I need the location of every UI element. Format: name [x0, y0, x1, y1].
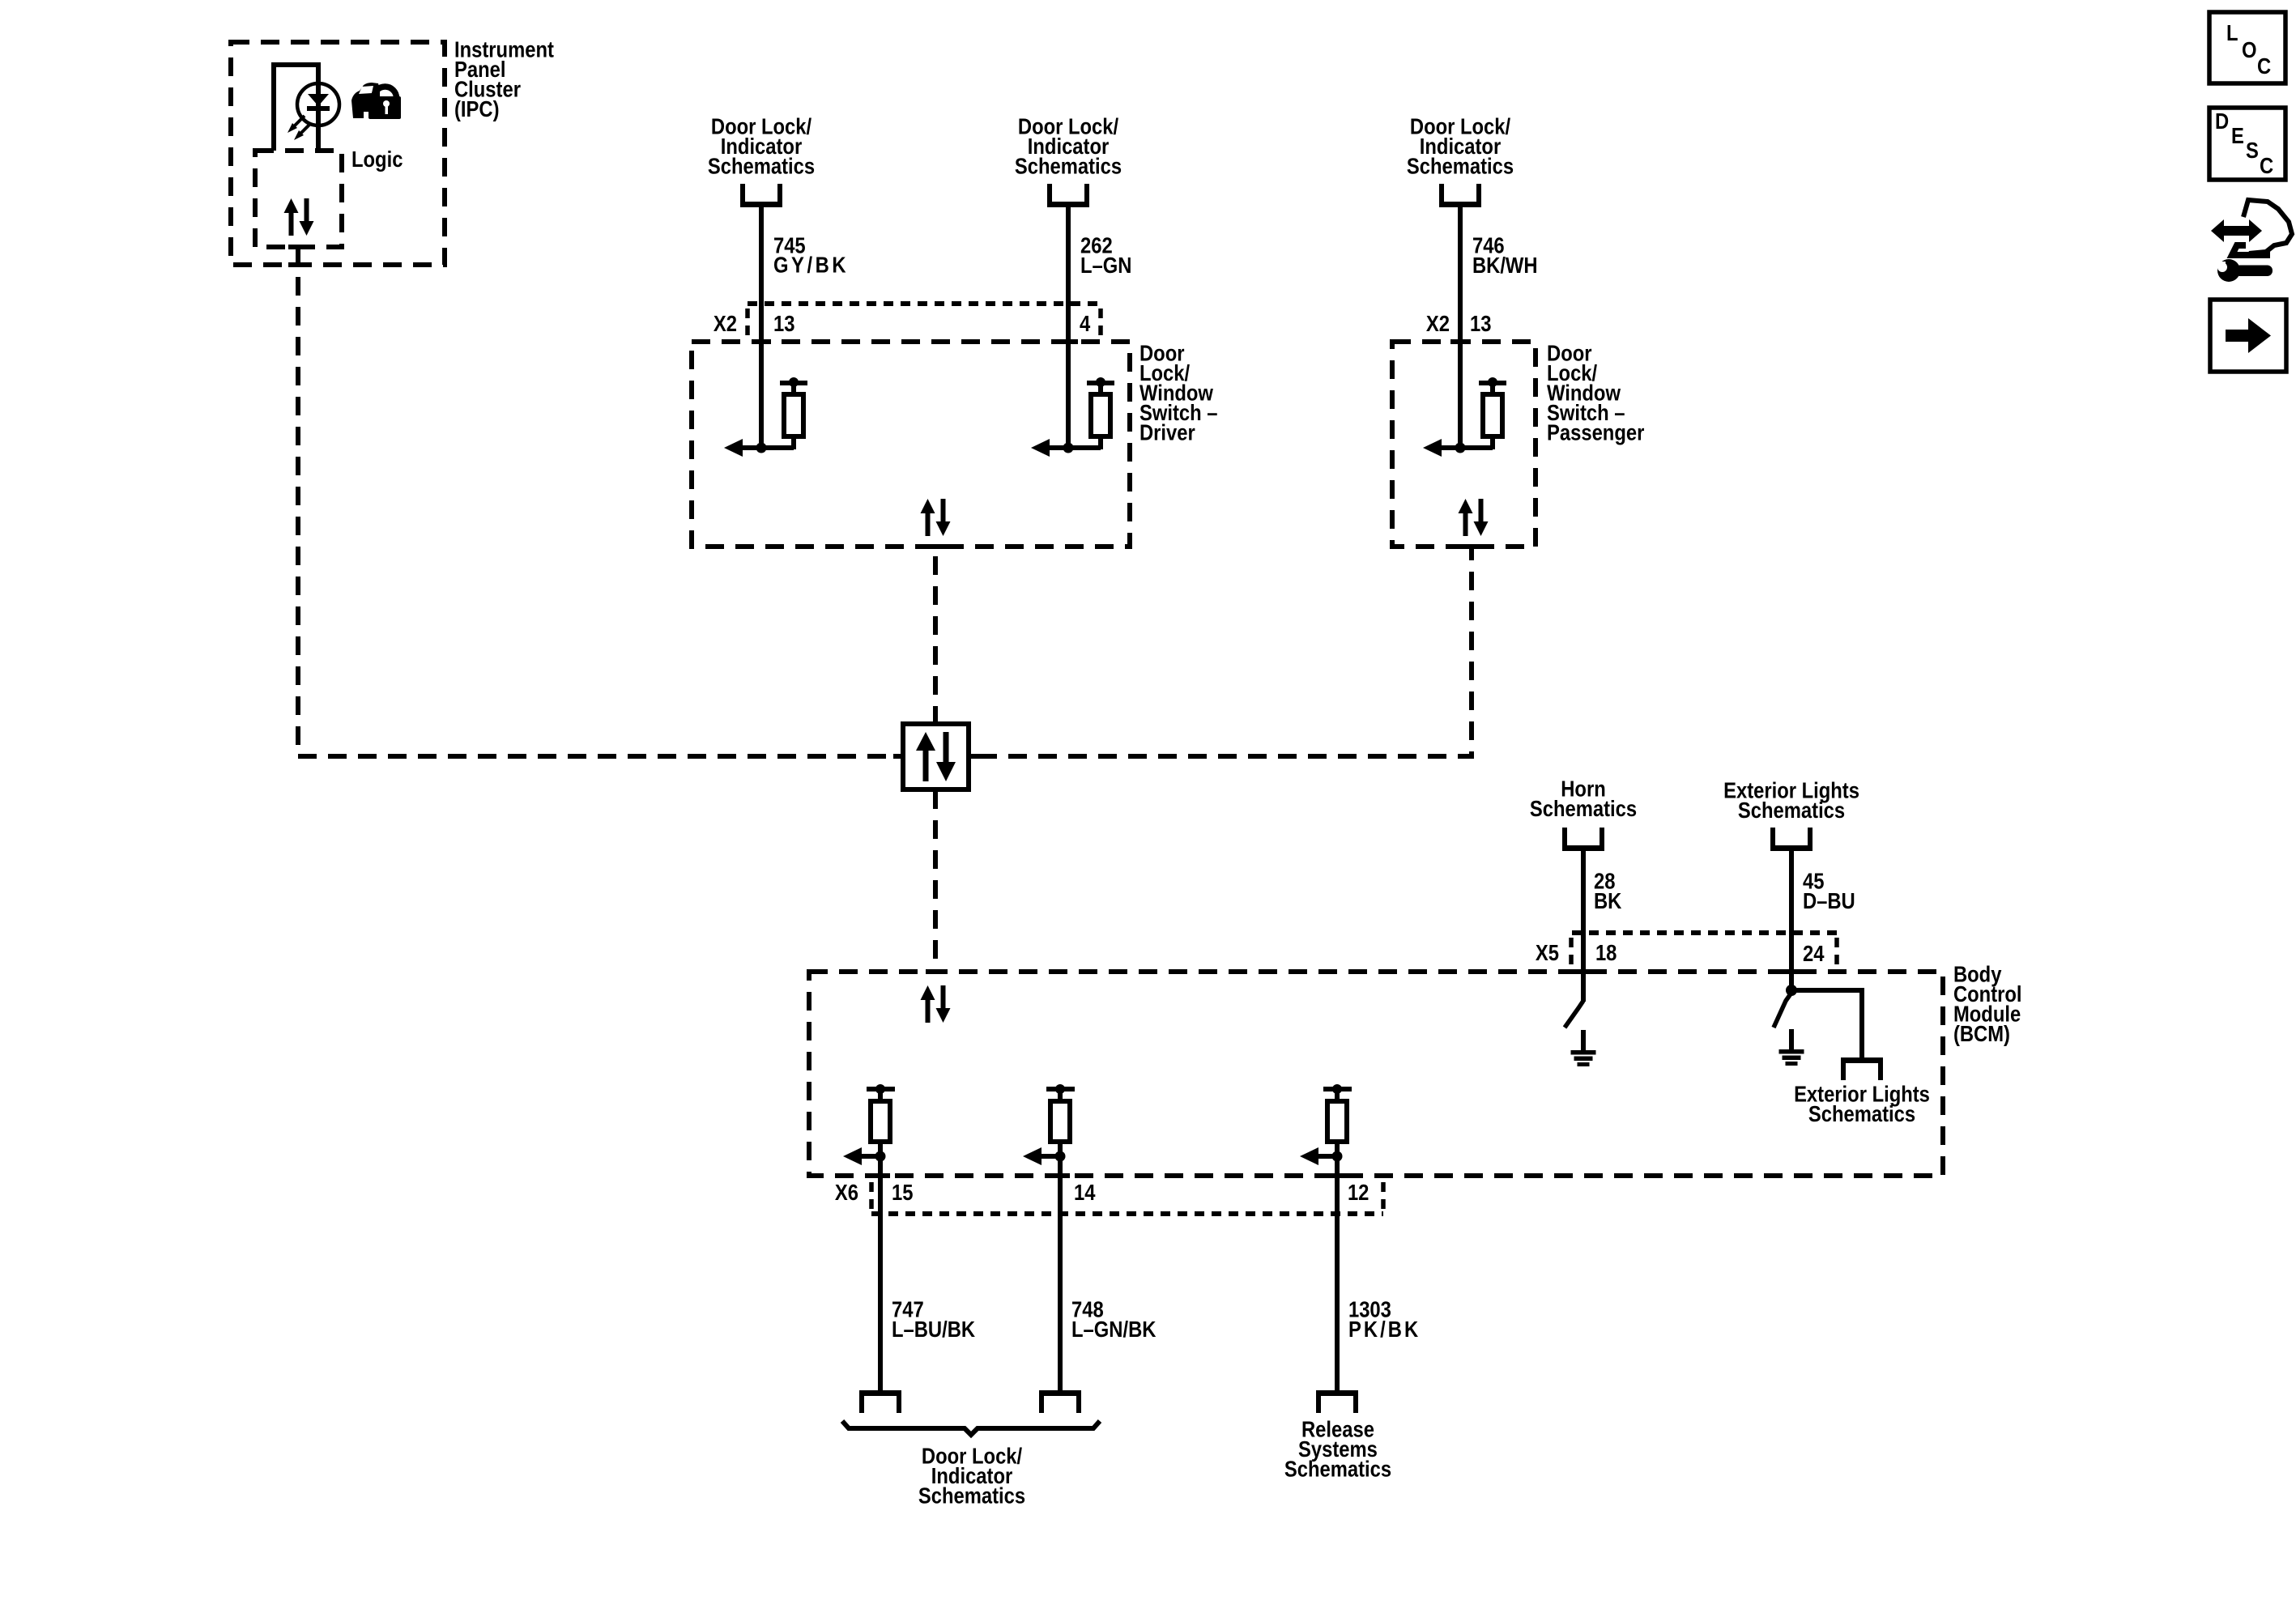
svg-text:Schematics: Schematics — [918, 1483, 1025, 1508]
svg-text:S: S — [2246, 137, 2259, 163]
svg-text:12: 12 — [1348, 1179, 1369, 1205]
svg-text:Schematics: Schematics — [1738, 797, 1845, 823]
svg-text:D: D — [2215, 108, 2229, 134]
svg-text:13: 13 — [1470, 310, 1491, 336]
svg-text:Logic: Logic — [351, 146, 403, 172]
svg-text:L–BU/BK: L–BU/BK — [892, 1316, 975, 1342]
svg-text:BK/WH: BK/WH — [1472, 252, 1538, 278]
svg-text:L–GN/BK: L–GN/BK — [1071, 1316, 1157, 1342]
svg-text:O: O — [2242, 36, 2257, 62]
svg-text:14: 14 — [1074, 1179, 1096, 1205]
svg-text:Schematics: Schematics — [1407, 153, 1514, 179]
svg-text:X5: X5 — [1536, 939, 1559, 965]
svg-text:C: C — [2260, 152, 2273, 178]
svg-text:4: 4 — [1080, 310, 1091, 336]
svg-text:Schematics: Schematics — [1284, 1456, 1391, 1482]
svg-text:Driver: Driver — [1139, 419, 1195, 445]
svg-text:E: E — [2231, 122, 2244, 148]
svg-text:L: L — [2226, 19, 2238, 45]
svg-text:GY/BK: GY/BK — [773, 252, 849, 278]
svg-text:(BCM): (BCM) — [1953, 1020, 2010, 1046]
svg-text:Passenger: Passenger — [1547, 419, 1644, 445]
svg-text:C: C — [2257, 53, 2271, 79]
svg-text:24: 24 — [1803, 940, 1825, 966]
svg-text:Schematics: Schematics — [708, 153, 815, 179]
svg-text:13: 13 — [773, 310, 794, 336]
svg-text:Schematics: Schematics — [1808, 1100, 1915, 1126]
svg-text:PK/BK: PK/BK — [1348, 1316, 1421, 1342]
svg-text:X2: X2 — [714, 310, 737, 336]
svg-text:15: 15 — [892, 1179, 913, 1205]
svg-text:D–BU: D–BU — [1803, 887, 1855, 913]
svg-text:Schematics: Schematics — [1530, 795, 1637, 821]
svg-text:Schematics: Schematics — [1015, 153, 1122, 179]
svg-text:L–GN: L–GN — [1080, 252, 1131, 278]
svg-text:BK: BK — [1594, 887, 1622, 913]
svg-text:X2: X2 — [1426, 310, 1450, 336]
svg-text:X6: X6 — [835, 1179, 858, 1205]
svg-text:(IPC): (IPC) — [454, 96, 499, 121]
svg-text:18: 18 — [1595, 939, 1617, 965]
